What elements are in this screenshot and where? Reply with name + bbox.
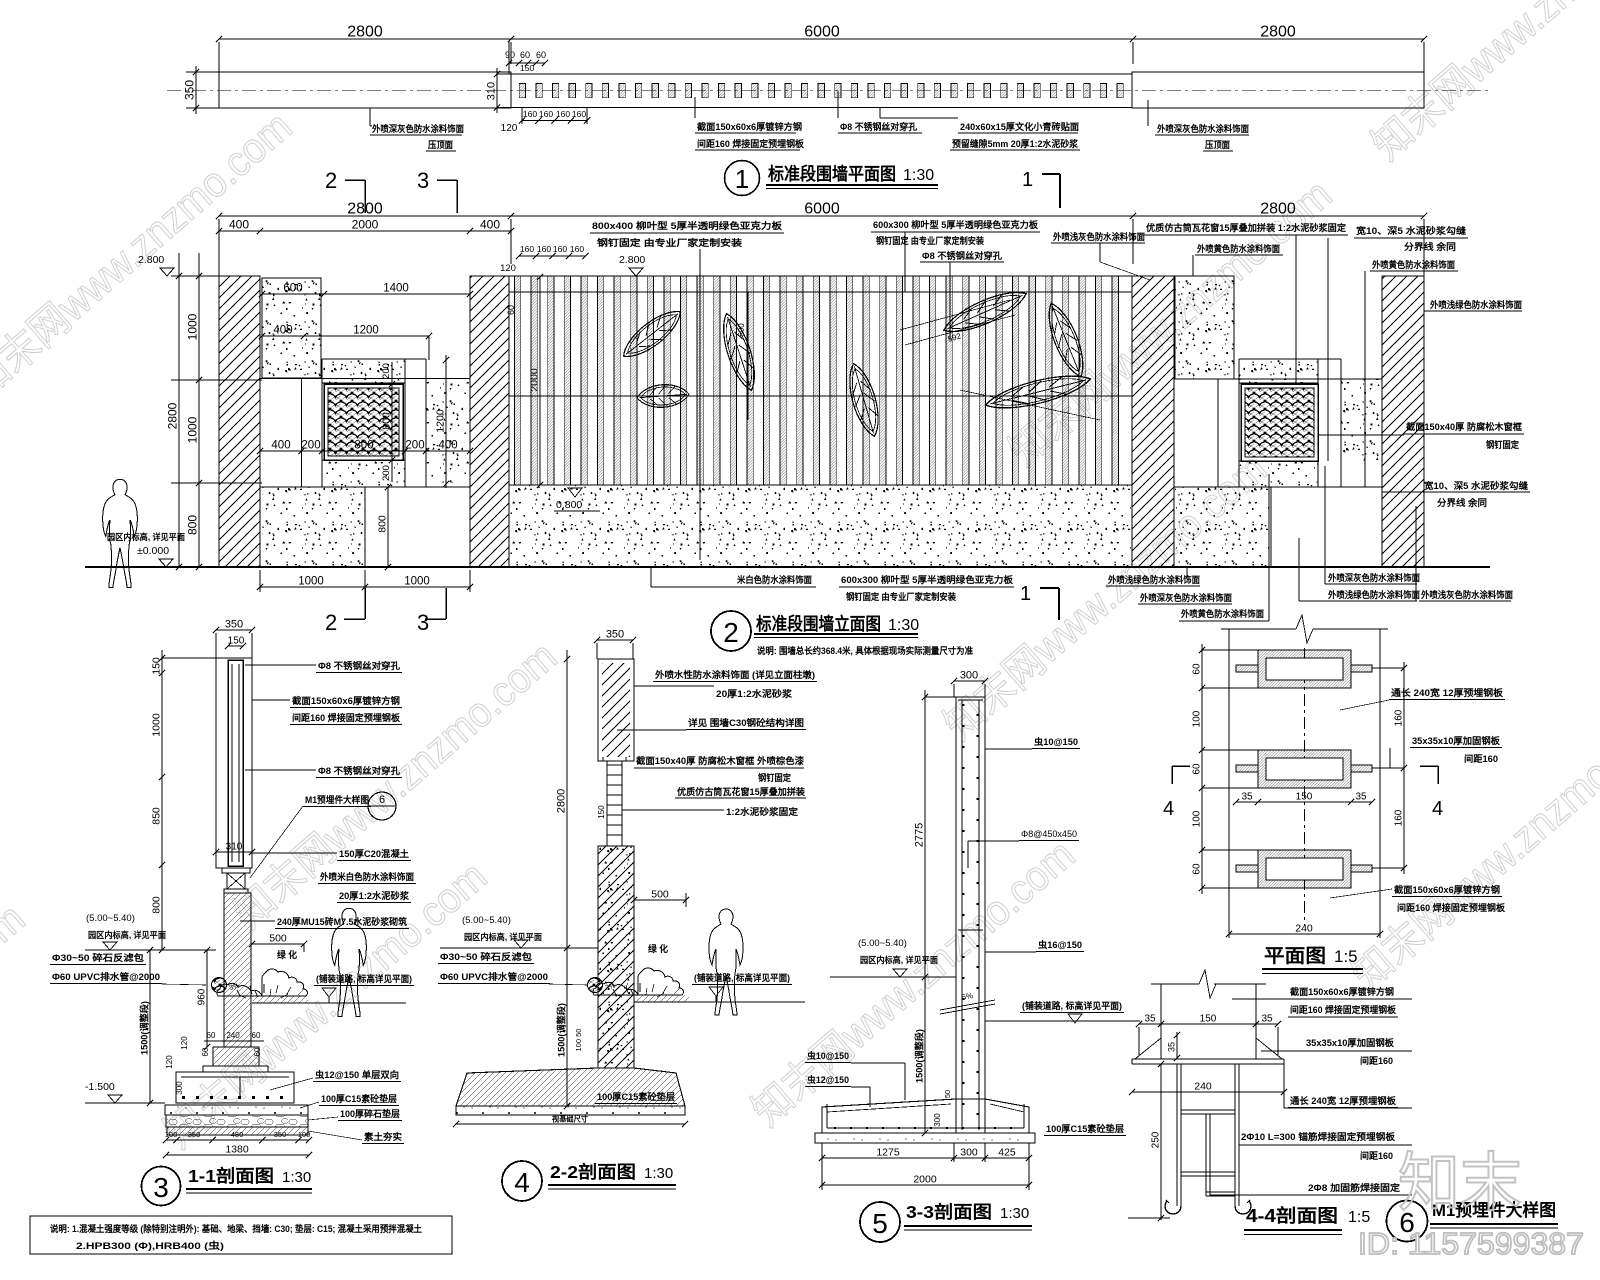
section 1-1: footing labels right bbox=[270, 1069, 404, 1144]
svg-text:预留缝隙5mm 20厚1:2水泥砂浆: 预留缝隙5mm 20厚1:2水泥砂浆 bbox=[952, 138, 1079, 149]
svg-text:说明: 围墙总长约368.4米, 具体根据现场实际测量尺寸为: 说明: 围墙总长约368.4米, 具体根据现场实际测量尺寸为准 bbox=[757, 645, 973, 656]
section 3-3: dim 50/300 left of footing bbox=[933, 1090, 952, 1127]
section 2-2: window ladder part bbox=[597, 757, 626, 846]
svg-text:200: 200 bbox=[405, 440, 424, 452]
svg-text:250: 250 bbox=[1151, 1131, 1162, 1148]
svg-text:4: 4 bbox=[1163, 798, 1174, 820]
svg-text:钢钉固定 由专业厂家定制安装: 钢钉固定 由专业厂家定制安装 bbox=[597, 237, 743, 248]
svg-text:间距160: 间距160 bbox=[1360, 1150, 1393, 1161]
svg-text:压顶面: 压顶面 bbox=[428, 140, 453, 150]
svg-text:20厚1:2水泥砂浆: 20厚1:2水泥砂浆 bbox=[716, 688, 793, 699]
svg-text:间距160 焊接固定预埋钢板: 间距160 焊接固定预埋钢板 bbox=[1397, 902, 1506, 913]
elev bottom: label group right bbox=[1299, 466, 1513, 601]
M1 plan: section 4 cut markers bbox=[1163, 766, 1443, 820]
svg-text:2800: 2800 bbox=[347, 24, 383, 41]
section 4-4: dim 35 small bbox=[1167, 1032, 1181, 1061]
svg-text:400: 400 bbox=[271, 440, 290, 452]
section 3-3: slope 5% bbox=[940, 991, 995, 1014]
section 2-2: right leader labels bbox=[617, 669, 817, 817]
fence level 0.800 bbox=[554, 488, 600, 511]
svg-text:米白色防水涂料饰面: 米白色防水涂料饰面 bbox=[736, 574, 812, 585]
svg-text:优质仿古筒瓦花窗15厚叠加拼装 1:2水泥砂浆固定: 优质仿古筒瓦花窗15厚叠加拼装 1:2水泥砂浆固定 bbox=[1146, 222, 1347, 233]
section 2-2: lower wall bbox=[598, 846, 634, 1068]
svg-text:150厚C20混凝土: 150厚C20混凝土 bbox=[339, 848, 409, 859]
fence top small dims 160x4 + 120 + 60 bbox=[500, 244, 589, 315]
svg-text:240: 240 bbox=[1295, 923, 1313, 935]
svg-text:5: 5 bbox=[872, 1208, 888, 1239]
left bay speckle band above grille bbox=[322, 359, 405, 383]
svg-text:外喷深灰色防水涂料饰面: 外喷深灰色防水涂料饰面 bbox=[1139, 592, 1232, 603]
svg-text:外喷浅绿色防水涂料饰面: 外喷浅绿色防水涂料饰面 bbox=[1107, 574, 1200, 585]
svg-text:1200: 1200 bbox=[435, 409, 447, 433]
section 3-3: wall bbox=[956, 697, 985, 1133]
section cut marker 1 (plan) bbox=[1022, 169, 1060, 208]
svg-text:310: 310 bbox=[486, 82, 498, 100]
svg-text:外喷米白色防水涂料饰面: 外喷米白色防水涂料饰面 bbox=[319, 871, 414, 882]
watermark ID number bbox=[1358, 1226, 1584, 1261]
svg-text:310: 310 bbox=[226, 842, 243, 853]
svg-text:160: 160 bbox=[1394, 709, 1405, 726]
svg-text:外喷浅灰色防水涂料饰面: 外喷浅灰色防水涂料饰面 bbox=[1420, 589, 1513, 600]
elev label 800x400 acrylic leaf bbox=[590, 220, 784, 270]
fence dim 2000 vertical bbox=[529, 274, 544, 488]
svg-text:间距160 焊接固定预埋钢板: 间距160 焊接固定预埋钢板 bbox=[697, 138, 805, 149]
elev label light grey coating bbox=[1051, 231, 1150, 280]
section 2-2: dim 500 bbox=[631, 889, 689, 908]
section 2-2: paving label bbox=[692, 972, 792, 1002]
svg-text:60: 60 bbox=[252, 1031, 261, 1040]
svg-text:外喷黄色防水涂料饰面: 外喷黄色防水涂料饰面 bbox=[1196, 243, 1280, 254]
right bay bottom speckled bbox=[1175, 487, 1271, 567]
svg-text:6: 6 bbox=[379, 794, 385, 806]
svg-text:800: 800 bbox=[377, 515, 389, 533]
left bay dim row 400/200/800/200/400 bbox=[257, 440, 473, 455]
section 1-1: drainage labels bbox=[50, 952, 206, 985]
svg-text:钢钉固定 由专业厂家定制安装: 钢钉固定 由专业厂家定制安装 bbox=[876, 235, 985, 246]
svg-text:Φ8@450x450: Φ8@450x450 bbox=[1021, 829, 1077, 839]
svg-text:分界线 余同: 分界线 余同 bbox=[1437, 497, 1487, 508]
svg-text:钢钉固定: 钢钉固定 bbox=[1486, 439, 1520, 450]
svg-text:160: 160 bbox=[539, 109, 553, 119]
M1 plan: centre axis bbox=[1304, 648, 1306, 925]
section 4-4: dim 240 bbox=[1129, 1081, 1287, 1096]
left bay vertical dims 200/800/200 and 1200 bbox=[381, 355, 450, 488]
right bay right pillar bbox=[1382, 276, 1424, 567]
svg-text:虫16@150: 虫16@150 bbox=[1038, 939, 1082, 950]
svg-text:1500(调整段): 1500(调整段) bbox=[139, 1001, 150, 1055]
section 3-3: dim 1500 bbox=[914, 974, 929, 1136]
svg-text:2.800: 2.800 bbox=[138, 254, 164, 266]
svg-text:6000: 6000 bbox=[804, 24, 840, 41]
left pillar hatched bbox=[219, 276, 260, 567]
section 4-4: post with break bbox=[1151, 970, 1266, 1059]
svg-text:800: 800 bbox=[151, 896, 163, 914]
svg-text:600: 600 bbox=[283, 283, 302, 295]
svg-text:400: 400 bbox=[273, 325, 292, 337]
svg-text:800: 800 bbox=[354, 440, 373, 452]
svg-text:说明: 1.混凝土强度等级 (除特别注明外): 基础、地梁、: 说明: 1.混凝土强度等级 (除特别注明外): 基础、地梁、挡墙: C30; 垫… bbox=[50, 1223, 422, 1234]
svg-text:详见 围墙C30钢砼结构详图: 详见 围墙C30钢砼结构详图 bbox=[688, 717, 804, 728]
svg-text:(5.00~5.40): (5.00~5.40) bbox=[462, 915, 511, 926]
svg-text:60: 60 bbox=[1192, 863, 1203, 875]
right bay speckled top-left block bbox=[1174, 276, 1382, 379]
svg-text:35: 35 bbox=[1167, 1042, 1177, 1052]
svg-text:800x400 柳叶型 5厚半透明绿色亚克力板: 800x400 柳叶型 5厚半透明绿色亚克力板 bbox=[592, 220, 783, 231]
svg-text:400: 400 bbox=[480, 218, 500, 232]
svg-text:1000: 1000 bbox=[186, 313, 200, 340]
elevation left ground label bbox=[107, 531, 185, 567]
title 2: elevation bbox=[711, 611, 973, 656]
svg-text:1: 1 bbox=[1022, 169, 1033, 191]
svg-text:±0.000: ±0.000 bbox=[137, 545, 169, 557]
svg-text:外喷深灰色防水涂料饰面: 外喷深灰色防水涂料饰面 bbox=[1327, 572, 1420, 583]
section 2-2: greenery bbox=[648, 943, 669, 954]
svg-text:1000: 1000 bbox=[298, 576, 324, 588]
svg-text:截面150x60x6厚镀锌方钢: 截面150x60x6厚镀锌方钢 bbox=[292, 695, 400, 706]
svg-text:35x35x10厚加固钢板: 35x35x10厚加固钢板 bbox=[1306, 1037, 1395, 1048]
leaf annotation lines bbox=[700, 270, 1100, 560]
svg-text:园区内标高, 详见平面: 园区内标高, 详见平面 bbox=[860, 954, 938, 965]
person silhouette at elevation left bbox=[103, 479, 138, 587]
svg-text:1:5: 1:5 bbox=[1334, 947, 1358, 966]
section 3-3: left rebar labels bbox=[805, 1050, 905, 1107]
svg-text:截面150x60x6厚镀锌方钢: 截面150x60x6厚镀锌方钢 bbox=[697, 121, 802, 132]
svg-text:50: 50 bbox=[943, 1090, 952, 1098]
svg-text:0.800: 0.800 bbox=[556, 499, 582, 511]
plan label: coating left bar bbox=[370, 108, 464, 151]
svg-text:800: 800 bbox=[381, 412, 393, 430]
svg-text:500: 500 bbox=[269, 933, 287, 945]
M1 plan: post outline verticals bbox=[1221, 615, 1388, 911]
section 1-1: greenery label bbox=[277, 949, 298, 960]
svg-text:150: 150 bbox=[520, 63, 534, 73]
section 4-4: stirrup rungs bbox=[1181, 1110, 1235, 1196]
section 2-2: C15 label bbox=[560, 1091, 677, 1107]
section 2-2: top dim 350 bbox=[594, 629, 636, 660]
section 4-4: labels right bbox=[1210, 986, 1412, 1195]
svg-text:1:2水泥砂浆固定: 1:2水泥砂浆固定 bbox=[726, 806, 799, 817]
plan dim 310 strip height bbox=[486, 68, 501, 113]
section 4-4: dim 250 bbox=[1128, 1061, 1170, 1221]
svg-text:(5.00~5.40): (5.00~5.40) bbox=[858, 938, 907, 949]
title: section 4-4 1:5 bbox=[1244, 1205, 1370, 1235]
M1 plan: dim 240 bbox=[1226, 911, 1383, 938]
svg-text:标准段围墙平面图: 标准段围墙平面图 bbox=[767, 164, 896, 184]
svg-text:800: 800 bbox=[186, 515, 200, 535]
section 1-1: M1 embed part bbox=[222, 868, 250, 893]
svg-text:2Φ8 加固筋焊接固定: 2Φ8 加固筋焊接固定 bbox=[1308, 1182, 1401, 1193]
svg-text:60: 60 bbox=[520, 50, 530, 60]
svg-text:外喷深灰色防水涂料饰面: 外喷深灰色防水涂料饰面 bbox=[1156, 123, 1249, 134]
svg-text:2-2剖面图: 2-2剖面图 bbox=[550, 1162, 636, 1182]
elevation dim row 400/2000/400 bbox=[216, 218, 514, 235]
section cut marker 2 top bbox=[325, 168, 365, 213]
section 4-4: anchor bars with hooks bbox=[1165, 1064, 1251, 1214]
svg-text:虫10@150: 虫10@150 bbox=[807, 1050, 849, 1061]
right bay left pillar bbox=[1132, 276, 1174, 567]
section cut marker 1 (elevation) bbox=[1020, 583, 1059, 620]
svg-text:160: 160 bbox=[523, 109, 537, 119]
section 2-2: ground level left bbox=[440, 915, 598, 948]
svg-text:宽10、深5 水泥砂浆勾缝: 宽10、深5 水泥砂浆勾缝 bbox=[1423, 480, 1529, 491]
section 1-1: person silhouette bbox=[332, 908, 367, 1016]
svg-text:Φ60 UPVC排水管@2000: Φ60 UPVC排水管@2000 bbox=[52, 971, 160, 982]
svg-text:90: 90 bbox=[505, 50, 515, 60]
elev bottom: white coating label bbox=[651, 567, 816, 587]
section 1-1: shrub bbox=[217, 969, 307, 998]
svg-text:压顶面: 压顶面 bbox=[1205, 140, 1230, 150]
svg-text:优质仿古筒瓦花窗15厚叠加拼装: 优质仿古筒瓦花窗15厚叠加拼装 bbox=[677, 786, 806, 797]
section 3-3: dim 2775 bbox=[914, 690, 957, 980]
svg-text:1380: 1380 bbox=[225, 1144, 249, 1156]
section 4-4: base plate bbox=[1132, 1059, 1284, 1064]
svg-text:M1预埋件大样图: M1预埋件大样图 bbox=[305, 794, 369, 805]
M1 plan: right dim 160/160 bbox=[1372, 662, 1407, 874]
svg-text:1400: 1400 bbox=[383, 283, 409, 295]
svg-text:35: 35 bbox=[1355, 792, 1367, 803]
svg-text:虫10@150: 虫10@150 bbox=[1034, 736, 1078, 747]
fence top rails bbox=[509, 276, 1132, 396]
section 4-4: gusset plates bbox=[1135, 1038, 1282, 1059]
svg-text:3: 3 bbox=[153, 1172, 169, 1203]
svg-text:Φ8 不锈钢丝对穿孔: Φ8 不锈钢丝对穿孔 bbox=[922, 250, 1003, 261]
elevation left dim 2800 overall bbox=[166, 253, 183, 570]
svg-text:Φ8 不锈钢丝对穿孔: Φ8 不锈钢丝对穿孔 bbox=[318, 660, 401, 671]
plan label: phi8 wire hole bbox=[838, 91, 922, 133]
svg-text:150: 150 bbox=[597, 805, 606, 819]
title 4: section 2-2 bbox=[502, 1161, 676, 1201]
svg-text:100厚碎石垫层: 100厚碎石垫层 bbox=[340, 1108, 400, 1119]
svg-text:分界线 余同: 分界线 余同 bbox=[1404, 241, 1456, 252]
watermark logo 知末 bbox=[1398, 1147, 1522, 1219]
section cut marker 3 top bbox=[417, 168, 457, 213]
elev label antique tile window bbox=[1144, 222, 1348, 384]
elevation top dim row 2800/6000/2800 bbox=[216, 201, 1427, 277]
svg-text:2800: 2800 bbox=[556, 789, 568, 813]
left bay centre assembly verticals bbox=[260, 359, 470, 487]
svg-text:150: 150 bbox=[1296, 792, 1313, 803]
svg-text:100厚C15素砼垫层: 100厚C15素砼垫层 bbox=[597, 1091, 675, 1102]
left bay speckled block right bbox=[426, 382, 470, 483]
elev label light green coating right bbox=[1424, 299, 1522, 311]
svg-text:200: 200 bbox=[381, 363, 392, 379]
svg-text:60: 60 bbox=[1192, 763, 1203, 775]
svg-text:4-4剖面图: 4-4剖面图 bbox=[1246, 1205, 1338, 1226]
svg-text:1:30: 1:30 bbox=[888, 617, 919, 634]
svg-text:截面150x60x6厚镀锌方钢: 截面150x60x6厚镀锌方钢 bbox=[1394, 884, 1500, 895]
left bay dim 400/1200 bbox=[259, 325, 432, 361]
svg-text:2: 2 bbox=[325, 610, 337, 635]
svg-text:150: 150 bbox=[151, 657, 163, 675]
svg-text:60: 60 bbox=[1192, 663, 1203, 675]
title: M1 plan 1:5 bbox=[1262, 945, 1363, 974]
svg-text:100: 100 bbox=[1192, 710, 1203, 727]
svg-text:(铺装道路, 标高详见平面): (铺装道路, 标高详见平面) bbox=[316, 973, 412, 984]
svg-text:200: 200 bbox=[381, 465, 392, 481]
title 6: M1 embed detail bbox=[1387, 1200, 1559, 1242]
section 2-2: dim 2800 and 1500 bbox=[556, 650, 571, 1109]
svg-text:240x60x15厚文化小青砖贴面: 240x60x15厚文化小青砖贴面 bbox=[960, 121, 1079, 132]
svg-text:400: 400 bbox=[229, 218, 249, 232]
section 1-1: -1.500 level bbox=[85, 1081, 165, 1103]
section 1-1: right leader labels bbox=[240, 660, 416, 929]
M1 plan tube 3 bbox=[1236, 850, 1372, 888]
svg-text:160: 160 bbox=[553, 244, 567, 254]
section 1-1: dim 960 and 1500 bbox=[139, 947, 211, 1106]
section 1-1: drain pipe circle bbox=[212, 978, 241, 993]
section 2-2: drain circle bbox=[588, 978, 617, 993]
elev label mortar joint right bbox=[1328, 225, 1468, 487]
svg-text:Φ60 UPVC排水管@2000: Φ60 UPVC排水管@2000 bbox=[440, 971, 548, 982]
svg-text:480: 480 bbox=[231, 1130, 244, 1139]
svg-text:1500(调整段): 1500(调整段) bbox=[556, 1003, 567, 1057]
svg-text:2000: 2000 bbox=[352, 218, 379, 232]
elevation bottom dim 1000/1000 bbox=[257, 570, 473, 592]
section 1-1: top dims 350/150 bbox=[213, 619, 255, 659]
title 3: section 1-1 bbox=[142, 1166, 313, 1206]
svg-text:35: 35 bbox=[1261, 1014, 1273, 1025]
svg-text:600x300 柳叶型 5厚半透明绿色亚克力板: 600x300 柳叶型 5厚半透明绿色亚克力板 bbox=[841, 574, 1014, 585]
section 3-3: ground level left bbox=[830, 938, 956, 977]
svg-text:间距160 焊接固定预埋钢板: 间距160 焊接固定预埋钢板 bbox=[1290, 1004, 1397, 1015]
elevation ground baseline bbox=[85, 566, 1490, 568]
svg-text:150: 150 bbox=[228, 636, 245, 647]
svg-text:850: 850 bbox=[151, 807, 163, 825]
svg-text:100: 100 bbox=[1192, 810, 1203, 827]
svg-text:350: 350 bbox=[188, 1130, 201, 1139]
svg-text:2000: 2000 bbox=[529, 368, 541, 392]
svg-text:200: 200 bbox=[301, 440, 320, 452]
svg-text:60: 60 bbox=[506, 305, 516, 315]
svg-text:350: 350 bbox=[225, 619, 243, 631]
section 3-3: footing bbox=[815, 1099, 1035, 1143]
svg-text:1: 1 bbox=[1020, 583, 1031, 605]
svg-text:宽10、深5 水泥砂浆勾缝: 宽10、深5 水泥砂浆勾缝 bbox=[1355, 225, 1467, 236]
svg-text:3: 3 bbox=[417, 610, 429, 635]
svg-text:-1.500: -1.500 bbox=[85, 1081, 115, 1093]
svg-text:园区内标高, 详见平面: 园区内标高, 详见平面 bbox=[107, 531, 185, 542]
svg-text:100厚C15素砼垫层: 100厚C15素砼垫层 bbox=[1046, 1123, 1124, 1134]
svg-text:通长 240宽 12厚预埋钢板: 通长 240宽 12厚预埋钢板 bbox=[1391, 687, 1504, 698]
svg-text:园区内标高, 详见平面: 园区内标高, 详见平面 bbox=[464, 931, 542, 942]
svg-text:间距160 焊接固定预埋钢板: 间距160 焊接固定预埋钢板 bbox=[292, 712, 401, 723]
fence slats bbox=[515, 276, 1119, 485]
svg-text:1: 1 bbox=[735, 164, 749, 194]
svg-text:20厚1:2水泥砂浆: 20厚1:2水泥砂浆 bbox=[339, 890, 410, 901]
elev bottom: 600x300 acrylic label bbox=[839, 574, 1014, 602]
section 3-3: top dim 300 bbox=[951, 670, 988, 698]
section 4-4: dim 35/150/35 bbox=[1136, 1014, 1281, 1057]
svg-text:素土夯实: 素土夯实 bbox=[364, 1131, 402, 1142]
svg-text:间距160: 间距160 bbox=[1360, 1055, 1393, 1066]
svg-text:通长 240宽 12厚预埋钢板: 通长 240宽 12厚预埋钢板 bbox=[1290, 1095, 1397, 1106]
svg-text:425: 425 bbox=[998, 1147, 1016, 1159]
svg-text:钢钉固定: 钢钉固定 bbox=[758, 772, 792, 783]
svg-text:平面图: 平面图 bbox=[1264, 945, 1326, 967]
svg-text:350: 350 bbox=[606, 629, 624, 641]
plan label: brick veneer bbox=[880, 107, 1080, 150]
svg-text:2000: 2000 bbox=[913, 1174, 937, 1186]
svg-text:(5.00~5.40): (5.00~5.40) bbox=[86, 913, 135, 924]
svg-text:1275: 1275 bbox=[876, 1147, 900, 1159]
left bay divider line y378 bbox=[260, 378, 470, 380]
plan view: middle fence strip bbox=[497, 74, 1132, 108]
svg-text:100 50: 100 50 bbox=[574, 1029, 583, 1052]
svg-text:160: 160 bbox=[556, 109, 570, 119]
svg-text:120: 120 bbox=[501, 123, 518, 134]
M1 plan tube 1 bbox=[1236, 650, 1372, 688]
svg-text:截面150x40厚 防腐松木窗框: 截面150x40厚 防腐松木窗框 bbox=[1406, 421, 1523, 432]
svg-text:外喷黄色防水涂料饰面: 外喷黄色防水涂料饰面 bbox=[1180, 608, 1264, 619]
svg-text:160: 160 bbox=[537, 244, 551, 254]
svg-text:60: 60 bbox=[536, 50, 546, 60]
svg-text:350: 350 bbox=[274, 1130, 287, 1139]
fence base wall speckled bbox=[509, 485, 1132, 567]
elev label mortar joint lower right bbox=[1382, 480, 1530, 508]
svg-text:35x35x10厚加固钢板: 35x35x10厚加固钢板 bbox=[1412, 735, 1501, 746]
svg-text:2800: 2800 bbox=[166, 402, 180, 429]
svg-text:虫12@150: 虫12@150 bbox=[807, 1074, 849, 1085]
svg-text:外喷水性防水涂料饰面 (详见立面柱墩): 外喷水性防水涂料饰面 (详见立面柱墩) bbox=[654, 669, 815, 680]
section 2-2: footing bbox=[456, 1068, 685, 1115]
section 2-2: planting hatch strip bbox=[634, 995, 805, 1002]
svg-text:1:30: 1:30 bbox=[903, 167, 934, 184]
svg-text:钢钉固定 由专业厂家定制安装: 钢钉固定 由专业厂家定制安装 bbox=[846, 591, 957, 602]
svg-text:6000: 6000 bbox=[804, 201, 840, 218]
svg-text:(铺装道路, 标高详见平面): (铺装道路, 标高详见平面) bbox=[694, 972, 790, 983]
svg-text:300: 300 bbox=[960, 670, 978, 682]
svg-text:园区内标高, 详见平面: 园区内标高, 详见平面 bbox=[88, 929, 166, 940]
svg-text:100: 100 bbox=[165, 1130, 178, 1139]
left bay speckle band below grille bbox=[322, 460, 405, 487]
elevation left dims 1000/1000/800 bbox=[171, 253, 262, 570]
svg-text:Φ8 不锈钢丝对穿孔: Φ8 不锈钢丝对穿孔 bbox=[840, 121, 918, 132]
svg-text:外喷浅绿色防水涂料饰面: 外喷浅绿色防水涂料饰面 bbox=[1429, 299, 1522, 310]
svg-text:1200: 1200 bbox=[353, 325, 379, 337]
section 1-1: small step dims 60/240/60 bbox=[165, 1031, 264, 1095]
left bay grille window bbox=[324, 384, 403, 460]
svg-text:300: 300 bbox=[933, 1113, 942, 1127]
svg-text:视基础尺寸: 视基础尺寸 bbox=[552, 1114, 588, 1124]
svg-text:160: 160 bbox=[570, 244, 584, 254]
elev label wood frame right bbox=[1318, 421, 1524, 450]
svg-text:100厚C15素砼垫层: 100厚C15素砼垫层 bbox=[321, 1093, 397, 1104]
svg-text:2800: 2800 bbox=[1260, 201, 1296, 218]
section 2-2: footing dims bbox=[453, 1029, 688, 1128]
section cut marker 2 bottom bbox=[325, 588, 365, 635]
svg-text:300: 300 bbox=[960, 1147, 978, 1159]
svg-text:2800: 2800 bbox=[1260, 24, 1296, 41]
svg-text:300: 300 bbox=[175, 1081, 184, 1095]
elev label 600x300 acrylic (above fence) bbox=[871, 219, 1040, 340]
svg-text:60: 60 bbox=[253, 1047, 262, 1056]
right pillar of left bay bbox=[470, 276, 509, 567]
svg-text:600x300 柳叶型 5厚半透明绿色亚克力板: 600x300 柳叶型 5厚半透明绿色亚克力板 bbox=[873, 219, 1039, 230]
svg-text:截面150x60x6厚镀锌方钢: 截面150x60x6厚镀锌方钢 bbox=[1290, 986, 1394, 997]
elev bottom: label group left of right bay bbox=[1106, 474, 1269, 621]
svg-text:1000: 1000 bbox=[151, 713, 163, 737]
svg-text:240: 240 bbox=[226, 1031, 240, 1040]
svg-text:2: 2 bbox=[723, 617, 739, 648]
section 1-1: dim 500 bbox=[249, 933, 307, 953]
section 1-1: dim 310 bbox=[213, 842, 255, 856]
svg-text:4: 4 bbox=[514, 1167, 530, 1198]
svg-text:120: 120 bbox=[180, 1036, 189, 1050]
section 2-2: person bbox=[709, 909, 743, 1015]
svg-text:2.HPB300 (Φ),HRB400 (虫): 2.HPB300 (Φ),HRB400 (虫) bbox=[76, 1240, 224, 1252]
svg-text:4: 4 bbox=[1432, 798, 1443, 820]
svg-text:外喷浅绿色防水涂料饰面: 外喷浅绿色防水涂料饰面 bbox=[1327, 589, 1420, 600]
